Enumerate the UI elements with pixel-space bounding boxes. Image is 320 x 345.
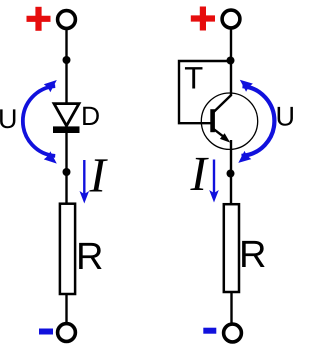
voltage arrowhead top left [44, 80, 57, 92]
voltage arrowhead top right [240, 80, 253, 92]
node dot lower right [227, 170, 235, 178]
svg-text:T: T [184, 60, 203, 95]
voltage arrow U left (arc) [23, 86, 55, 156]
terminal circle top right [222, 10, 240, 28]
node dot upper left [63, 56, 71, 64]
resistor R left [60, 204, 75, 294]
node dot upper right [227, 57, 235, 65]
base box of transistor T [179, 61, 231, 123]
terminal circle bottom left [58, 324, 76, 342]
wire top left [65, 29, 67, 104]
svg-text:U: U [0, 104, 18, 134]
voltage arrow U right (arc) [242, 86, 275, 156]
wire top right [230, 28, 232, 95]
node dot lower left [63, 168, 71, 176]
wire bottom left [65, 294, 67, 323]
terminal circle top left [58, 11, 76, 29]
current arrow I left [80, 160, 90, 204]
svg-text:U: U [276, 102, 295, 132]
current arrow I right [209, 160, 219, 203]
terminal + (left supply plus) [27, 7, 51, 31]
terminal circle bottom right [224, 324, 242, 342]
terminal - (right supply minus) [203, 328, 216, 334]
transistor emitter arrowhead [220, 133, 230, 142]
terminal - (left supply minus) [39, 329, 53, 335]
transistor base bar [210, 109, 215, 132]
voltage arrowhead bottom left [44, 151, 57, 163]
diode D cathode bar [53, 126, 80, 133]
terminal + (right supply plus) [191, 7, 215, 31]
svg-text:I: I [89, 147, 109, 202]
wire mid left [65, 133, 67, 204]
resistor R right [224, 204, 239, 292]
wire bottom right [230, 292, 232, 324]
svg-text:I: I [190, 146, 210, 201]
diode D triangle [54, 104, 79, 126]
svg-text:R: R [239, 234, 266, 276]
wire mid right [230, 140, 232, 205]
svg-text:R: R [76, 236, 103, 278]
transistor collector [213, 95, 232, 113]
voltage arrowhead bottom right [238, 151, 251, 163]
svg-text:D: D [81, 101, 100, 131]
transistor body circle [201, 93, 257, 149]
transistor emitter [213, 129, 225, 138]
